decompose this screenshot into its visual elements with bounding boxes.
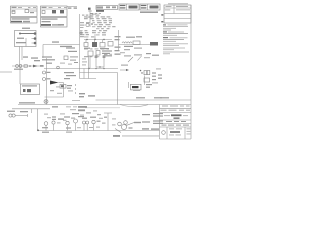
right cluster junction <box>140 70 142 72</box>
relay contact K1 <box>84 40 88 47</box>
bottom scatter marks <box>47 109 101 132</box>
long feeder wire upper <box>96 99 192 101</box>
label under tag box D2 <box>140 11 158 13</box>
label below feeder <box>52 106 58 107</box>
third bus wire <box>80 78 97 80</box>
lower block wire <box>128 82 130 88</box>
bottom bus <box>38 130 160 132</box>
revision table title <box>168 2 188 5</box>
title row 3 <box>162 125 167 126</box>
title block <box>160 105 192 140</box>
instrument circle <box>86 23 89 26</box>
table legend box B2 <box>41 18 68 28</box>
loop bottom wire <box>96 66 104 68</box>
chain fuse <box>24 65 27 67</box>
left generator assembly <box>9 114 28 117</box>
mid bus extra words <box>60 62 78 65</box>
left return wire <box>12 108 50 110</box>
feeder labels <box>136 97 169 98</box>
small label right of tables <box>86 14 96 18</box>
left horizontal feeder chain <box>12 65 44 67</box>
bottom bus riser <box>37 109 39 131</box>
chain breaker circle 2 <box>19 65 22 68</box>
riser wire <box>63 83 65 98</box>
table legend box A <box>11 6 38 17</box>
contact box <box>133 41 140 45</box>
transformer T1 label <box>22 28 30 29</box>
tap component circle 1 <box>43 71 51 74</box>
wire pair down <box>89 56 91 69</box>
current loop right leg <box>103 55 106 67</box>
title row 2 <box>166 121 172 122</box>
header strip C0 <box>67 7 91 10</box>
breaker label (dark) <box>96 10 104 12</box>
name bar (black) <box>132 86 139 88</box>
mid text rows <box>42 56 55 63</box>
wire from T1 bottom left <box>19 47 21 67</box>
title bottom middle text <box>169 128 182 135</box>
relay contact K4 <box>108 42 113 47</box>
coil box L2 <box>96 51 100 56</box>
mid cluster extra marks <box>50 86 73 93</box>
bottom device 3 <box>64 116 71 130</box>
upper right slash switch 2 <box>138 56 142 61</box>
central label texture <box>82 13 116 37</box>
label below <box>124 46 133 47</box>
horizontal distribution wire <box>84 39 112 41</box>
transformer T1 box <box>15 31 37 47</box>
bottom device 1 <box>42 122 49 133</box>
relay row labels (right) <box>126 36 142 38</box>
faint marks below feeder <box>66 105 77 108</box>
aux wire down <box>144 76 146 86</box>
bottom device 4 <box>72 113 84 131</box>
fuse labels left <box>79 93 95 97</box>
T1 terminal 3 <box>32 42 37 45</box>
upper right slash switch 1 <box>128 57 133 62</box>
label below chain <box>14 69 23 70</box>
stacked glyphs <box>78 106 87 111</box>
aux contact lower <box>144 78 150 82</box>
wire to terminal box <box>119 44 151 46</box>
header strip C1 <box>96 6 118 10</box>
chain end marks <box>40 65 43 67</box>
aux marks <box>152 68 162 83</box>
aux contact pair <box>141 71 150 75</box>
mid column labels <box>64 72 76 79</box>
small box mid <box>64 56 68 60</box>
T1 terminal 2 <box>32 37 37 40</box>
T1 terminal 1 <box>34 32 37 35</box>
stub line <box>72 100 80 102</box>
tag box D1 <box>119 4 139 10</box>
bus corner junction <box>37 129 39 131</box>
revision table <box>164 5 191 23</box>
motor symbol M1 <box>44 100 48 104</box>
bus circle tap <box>57 66 60 69</box>
stamp symbol <box>162 131 166 135</box>
lower label texture <box>84 48 112 57</box>
tag box D2 <box>140 4 160 10</box>
right column marks <box>115 36 121 55</box>
junction dots on distribution wire <box>86 39 104 40</box>
central riser wire <box>88 10 92 28</box>
second bus wire <box>80 72 118 74</box>
cluster above wire <box>60 85 72 89</box>
right notes above title block <box>142 113 163 124</box>
label above wire <box>52 41 59 42</box>
bottom device 5 pair <box>82 118 89 131</box>
zone marks <box>161 14 163 15</box>
name bar label <box>133 90 140 91</box>
side labels <box>66 47 77 52</box>
meter cluster <box>115 121 127 133</box>
relay contact K2 <box>92 40 97 48</box>
wire down from chain <box>19 66 21 84</box>
terminal box (dark) <box>150 42 158 46</box>
left vertical wire lower <box>46 58 48 105</box>
left drop wire <box>42 45 44 59</box>
coil box L1 <box>88 51 93 56</box>
long feeder wire main <box>18 104 191 106</box>
bus tie verticals <box>84 69 89 79</box>
extra bottom scatter <box>44 114 116 128</box>
chain breaker circle 1 <box>16 65 19 68</box>
faint second feeder <box>85 107 120 109</box>
tap component circle 2 <box>43 78 51 81</box>
meter side marks <box>80 22 85 28</box>
bus drop wire <box>117 73 119 105</box>
return labels <box>7 111 28 113</box>
side marks <box>146 84 152 88</box>
footer note text <box>113 135 159 136</box>
wire from T1 bottom right <box>21 47 23 61</box>
main bus wire <box>44 68 118 70</box>
table legend box A2 <box>11 18 38 24</box>
antenna riser <box>104 113 112 131</box>
label on wire <box>60 46 72 47</box>
title bottom right text <box>187 128 191 134</box>
tick dashes column <box>75 84 77 94</box>
relay labels <box>84 48 109 50</box>
link wire <box>45 96 64 98</box>
mid-left long wire <box>43 44 80 46</box>
chain arrow <box>33 65 38 68</box>
sync motor circle <box>121 122 141 130</box>
left chain labels above <box>23 56 40 61</box>
slash labels <box>120 48 150 66</box>
coil element <box>122 42 132 43</box>
title block header cells <box>161 110 191 111</box>
feeder label left <box>19 102 35 103</box>
table legend box B <box>41 6 68 17</box>
title block reference row <box>162 106 168 107</box>
small marks right <box>146 53 159 56</box>
current loop left leg <box>95 55 98 67</box>
vertical feeder wire <box>79 14 81 79</box>
junction dots on bus <box>88 66 104 69</box>
control box H <box>21 84 40 95</box>
junction dot <box>91 23 93 25</box>
chain junction <box>29 65 31 67</box>
bottom device 6 <box>90 117 101 131</box>
right column wire <box>118 30 120 50</box>
mid marks <box>70 56 87 65</box>
right border <box>190 5 192 139</box>
name bar frame <box>131 84 142 90</box>
coil labels <box>102 50 112 56</box>
title name (dark) <box>164 114 188 118</box>
marks above bus right <box>142 128 159 130</box>
bottom label <box>58 118 64 119</box>
sag arc <box>120 105 148 107</box>
wire to bus <box>94 34 96 40</box>
bus arrow segment <box>120 69 129 71</box>
notes text block <box>163 24 189 54</box>
left column label texture <box>80 30 89 37</box>
left margin stub <box>0 71 12 73</box>
return drop <box>31 109 33 113</box>
wedge wire <box>59 82 64 84</box>
ct wedge (dark) <box>50 81 59 85</box>
relay contact K3 <box>100 40 105 48</box>
bottom device 2 <box>52 116 56 130</box>
